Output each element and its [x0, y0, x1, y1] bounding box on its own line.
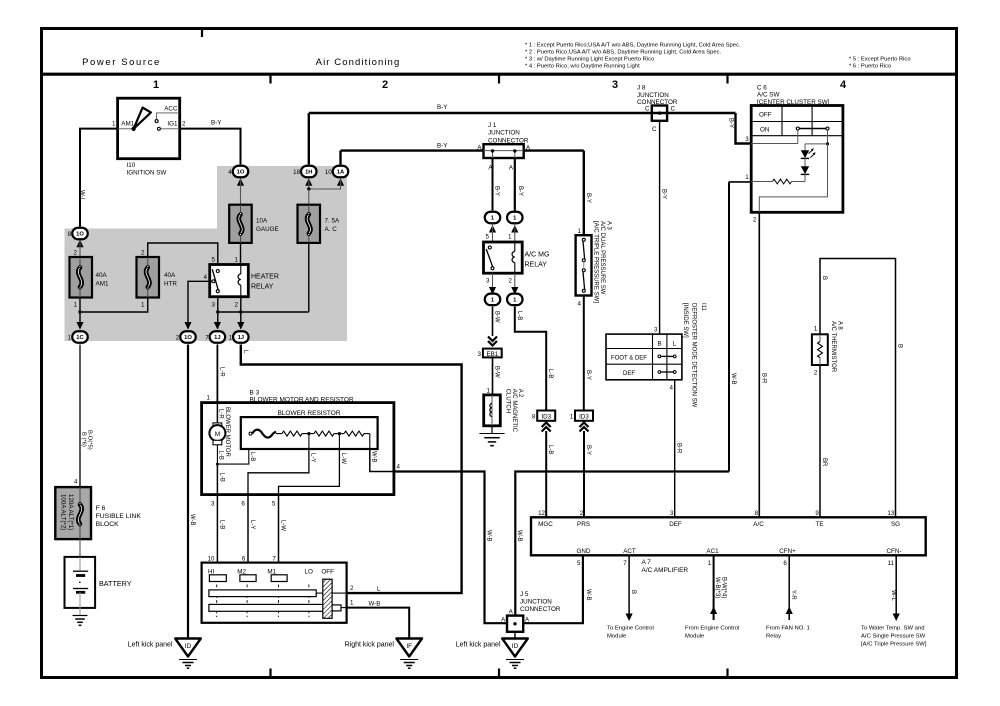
svg-text:L-B: L-B: [547, 369, 553, 378]
svg-text:LO: LO: [304, 569, 313, 576]
svg-text:4: 4: [204, 274, 208, 281]
I10 internal ACC contact: [155, 120, 158, 123]
ACT wire to engine control module: [628, 555, 630, 614]
wire HTR pin2 to relay pin5: [148, 243, 218, 265]
wire C6 pin2 B-R to AC pin8: [758, 212, 760, 517]
junction dot tap LW: [338, 432, 341, 435]
svg-text:To Engine Control: To Engine Control: [607, 626, 654, 632]
svg-text:* 5 : Except Puerto Rico: * 5 : Except Puerto Rico: [849, 57, 911, 63]
battery plates: [79, 557, 81, 571]
svg-text:B-Y: B-Y: [585, 445, 591, 455]
wire motor to LB junction: [216, 445, 218, 464]
wire 2 1O to ID ground W-B: [187, 345, 189, 639]
svg-text:1H: 1H: [305, 170, 312, 176]
svg-text:ON: ON: [760, 126, 770, 133]
svg-text:B: B: [630, 590, 636, 594]
svg-text:BR: BR: [821, 458, 827, 467]
svg-text:L-W: L-W: [340, 453, 346, 464]
wire L-B to ID3 left: [515, 307, 546, 410]
svg-text:Left kick panel: Left kick panel: [128, 642, 173, 649]
arrow into 1 1J: [237, 322, 244, 330]
svg-text:1: 1: [207, 395, 211, 402]
svg-text:2: 2: [182, 121, 186, 128]
svg-text:L: L: [673, 341, 677, 348]
svg-text:AM1: AM1: [121, 120, 134, 127]
svg-text:C 6: C 6: [757, 85, 767, 92]
wire A7 GND to J5: [523, 555, 583, 623]
wire J1 right pin down: [514, 158, 516, 211]
svg-text:BATTERY: BATTERY: [99, 579, 132, 588]
wire 1A branch to fuse AC: [309, 180, 341, 190]
svg-text:FUSIBLE LINK: FUSIBLE LINK: [96, 513, 142, 520]
CFN+ wire from fan relay: [788, 555, 790, 620]
connector 10 1A: [333, 166, 349, 178]
svg-text:B-Y: B-Y: [517, 186, 523, 196]
svg-text:DEF: DEF: [669, 521, 682, 528]
svg-text:Left kick panel: Left kick panel: [456, 642, 501, 649]
svg-text:B-Y: B-Y: [728, 118, 734, 128]
svg-text:B-R: B-R: [760, 373, 766, 384]
svg-text:Module: Module: [685, 634, 705, 640]
svg-text:Power Source: Power Source: [82, 57, 161, 68]
svg-text:7: 7: [272, 556, 276, 563]
battery ground: [79, 608, 81, 616]
svg-text:[INSIDE SW]: [INSIDE SW]: [682, 303, 688, 338]
C8 slider bar L: [209, 590, 316, 597]
svg-text:1: 1: [141, 302, 145, 309]
svg-text:1O: 1O: [184, 335, 192, 341]
svg-text:W-B: W-B: [369, 601, 381, 608]
svg-text:* 6 : Puerto Rico: * 6 : Puerto Rico: [849, 64, 891, 70]
arrow into 7 1J: [214, 322, 221, 330]
C6 internal to pin2: [759, 144, 827, 212]
svg-text:A 8: A 8: [837, 321, 843, 330]
svg-text:W-B: W-B: [485, 530, 491, 542]
C6 LED 2: [804, 158, 806, 166]
svg-text:18: 18: [293, 169, 300, 176]
connector 1 1J: [233, 331, 249, 343]
connector 18 1H: [301, 166, 317, 178]
svg-text:1O: 1O: [237, 170, 245, 176]
svg-text:C: C: [671, 106, 676, 113]
svg-text:3: 3: [211, 501, 215, 508]
svg-text:5: 5: [212, 257, 216, 264]
svg-text:B (*6): B (*6): [80, 432, 86, 447]
svg-text:* 3 : w/ Daytime Running Light: * 3 : w/ Daytime Running Light Except Pu…: [525, 57, 654, 63]
tick header col 1-2: [269, 74, 271, 84]
blower motor M: [216, 403, 218, 423]
svg-text:1A: 1A: [337, 170, 345, 176]
svg-text:2: 2: [235, 302, 239, 309]
svg-text:B-R: B-R: [676, 443, 682, 454]
svg-text:GND: GND: [577, 548, 591, 555]
svg-text:A/C MG: A/C MG: [525, 252, 550, 259]
svg-text:1: 1: [814, 326, 818, 333]
svg-text:Right kick panel: Right kick panel: [345, 642, 395, 649]
junction dot fuse AC feed: [307, 187, 310, 190]
svg-text:4: 4: [578, 301, 582, 308]
junction dot pin3 bus: [216, 310, 219, 313]
I10 internal AM1 contact and rotor arm: [118, 128, 132, 130]
junction dot motor L-B: [216, 463, 219, 466]
svg-text:EB1: EB1: [486, 351, 498, 358]
svg-text:I11: I11: [700, 303, 706, 312]
svg-text:* 2 : Puerto Rico;USA A/T w/o: * 2 : Puerto Rico;USA A/T w/o ABS, Dayti…: [525, 50, 722, 56]
svg-text:ID: ID: [512, 643, 519, 650]
svg-text:A/C THERMISTOR: A/C THERMISTOR: [830, 321, 836, 373]
svg-text:BLOCK: BLOCK: [96, 521, 120, 528]
ground IF right kick panel: [396, 639, 422, 657]
svg-text:B-Y: B-Y: [437, 104, 447, 111]
svg-text:IG1: IG1: [167, 120, 178, 127]
svg-text:J 8: J 8: [637, 85, 646, 92]
svg-text:FOOT & DEF: FOOT & DEF: [611, 355, 647, 361]
A3 switch contacts: [582, 238, 585, 241]
resistor chain: [249, 432, 252, 435]
svg-text:BLOWER RESISTOR: BLOWER RESISTOR: [277, 410, 340, 417]
svg-text:AC1: AC1: [706, 548, 719, 555]
C8 dashed guides: [216, 585, 218, 618]
svg-text:8: 8: [755, 510, 759, 517]
svg-text:CONNECTOR: CONNECTOR: [520, 606, 561, 613]
svg-text:DEF: DEF: [623, 371, 635, 377]
wire MG pin2 down L-B: [514, 273, 516, 294]
svg-text:RELAY: RELAY: [525, 262, 548, 269]
C8 bar WB right end: [332, 605, 341, 611]
ground ID left kick panel: [175, 639, 201, 657]
svg-text:6: 6: [241, 501, 245, 508]
svg-text:CFN-: CFN-: [886, 548, 901, 555]
svg-text:B-Y: B-Y: [493, 186, 499, 196]
svg-text:L-B: L-B: [218, 451, 224, 460]
svg-text:RELAY: RELAY: [251, 284, 274, 291]
svg-text:W-B: W-B: [730, 373, 736, 385]
tick header col 3-4: [726, 74, 728, 84]
svg-text:3: 3: [745, 136, 749, 143]
svg-text:1: 1: [745, 174, 749, 181]
svg-text:10: 10: [325, 169, 332, 176]
svg-text:8: 8: [68, 231, 72, 238]
svg-text:A/C AMPLIFIER: A/C AMPLIFIER: [642, 567, 689, 574]
wire relay pin3 down: [217, 297, 219, 329]
svg-text:* 4 : Puerto Rico, w/o Daytime: * 4 : Puerto Rico, w/o Daytime Running L…: [525, 64, 640, 70]
svg-text:1J: 1J: [238, 335, 244, 341]
svg-text:Air Conditioning: Air Conditioning: [316, 57, 401, 68]
svg-text:L-Y: L-Y: [249, 520, 255, 529]
wire tap LW to pin5: [279, 449, 340, 495]
svg-text:1: 1: [153, 79, 159, 91]
C6 A/C switch box: [751, 106, 843, 213]
MG relay switch contacts: [488, 246, 491, 249]
wire J8 down B-Y to I11: [659, 121, 661, 334]
wire W-B from B3 pin4 to J5: [394, 472, 507, 624]
wire ID3 right to PRS: [583, 431, 585, 517]
svg-text:W-L: W-L: [890, 590, 896, 602]
junction connector J8 box: [652, 106, 667, 121]
C6 ON contact: [796, 127, 799, 130]
svg-text:ID3: ID3: [579, 413, 589, 420]
wire LB tap: [217, 449, 248, 464]
svg-text:Relay: Relay: [766, 634, 781, 640]
svg-text:2: 2: [814, 370, 818, 377]
svg-text:A/C Single Pressure SW: A/C Single Pressure SW: [861, 634, 926, 640]
C6 resistor: [804, 174, 806, 181]
wire oval to EB1: [492, 307, 494, 337]
wire W-B from C6 riser to J5: [515, 472, 729, 616]
ignition switch I10 box: [118, 98, 180, 159]
connector ID3 right: [575, 411, 593, 421]
svg-text:L-R: L-R: [218, 409, 224, 419]
svg-text:2: 2: [508, 277, 512, 284]
svg-text:[A/C Triple Pressure SW]: [A/C Triple Pressure SW]: [861, 642, 927, 648]
wire A3 pin4 to ID3 right: [583, 296, 585, 410]
wire tap WB to pin4: [370, 449, 394, 472]
svg-text:1: 1: [350, 600, 354, 607]
wire I11 pin4 to DEF pin B-R: [674, 380, 676, 518]
wire thermistor pin1 B to SG: [820, 259, 896, 518]
wire J1 right to A3 pin1: [524, 149, 584, 151]
svg-text:1: 1: [229, 334, 233, 341]
svg-text:13: 13: [887, 510, 894, 517]
svg-text:A/C DUAL PRESSURE SW: A/C DUAL PRESSURE SW: [599, 221, 605, 295]
svg-text:5: 5: [577, 560, 581, 567]
svg-text:CFN+: CFN+: [779, 548, 796, 555]
svg-text:L-Y: L-Y: [309, 453, 315, 462]
svg-text:A 3: A 3: [605, 221, 611, 230]
A3 dual pressure switch box: [576, 235, 592, 295]
svg-text:L-B: L-B: [516, 311, 522, 320]
svg-text:1: 1: [708, 560, 712, 567]
svg-text:3: 3: [654, 327, 658, 334]
C8 contact pads: [209, 575, 226, 582]
svg-text:PRS: PRS: [577, 521, 590, 528]
MG relay coil: [512, 252, 515, 263]
svg-text:J 1: J 1: [488, 122, 497, 129]
ground ID center left kick panel: [502, 639, 528, 657]
svg-text:2: 2: [141, 250, 145, 257]
svg-text:B-O(*5): B-O(*5): [87, 430, 93, 450]
A8 thermistor box: [812, 334, 828, 365]
tap wires down: [308, 434, 310, 449]
svg-text:A 7: A 7: [642, 559, 652, 566]
svg-text:M: M: [215, 431, 220, 438]
wire MG pin3 down B-W: [492, 273, 494, 294]
AC1 wire from engine control module: [713, 555, 715, 620]
svg-text:1: 1: [68, 334, 72, 341]
heater relay switch contacts: [216, 270, 219, 273]
AC MG relay box: [484, 242, 523, 273]
gray fuse/relay block region: [65, 166, 348, 341]
svg-text:From Engine Control: From Engine Control: [685, 626, 739, 632]
wire J5 to ID ground: [514, 632, 516, 639]
svg-text:B-Y: B-Y: [585, 370, 591, 380]
svg-text:B 3: B 3: [250, 390, 260, 397]
connector 1 1C: [72, 331, 88, 343]
connector 2 1O: [180, 331, 196, 343]
wire relay pin2 down: [240, 297, 242, 329]
I11 defroster switch box: [606, 334, 682, 380]
svg-text:4: 4: [228, 169, 232, 176]
svg-text:From FAN NO. 1: From FAN NO. 1: [766, 626, 810, 632]
blower resistor inner box: [241, 417, 378, 449]
arrow into 2 1O: [184, 322, 191, 330]
connector oval 1 left: [485, 212, 501, 224]
svg-text:1: 1: [74, 302, 78, 309]
svg-text:1: 1: [508, 234, 512, 241]
wire J1 left pin down: [492, 158, 494, 211]
svg-text:J 5: J 5: [520, 591, 529, 598]
tick top border: [201, 30, 203, 37]
svg-text:I10: I10: [127, 162, 136, 169]
A8 thermistor element: [819, 334, 821, 341]
svg-text:B-Y: B-Y: [585, 193, 591, 203]
svg-text:W-L: W-L: [79, 190, 85, 202]
svg-text:120A ALT(*1): 120A ALT(*1): [67, 494, 74, 530]
junction connector J1 box: [484, 144, 524, 158]
svg-text:W-B(*3): W-B(*3): [714, 577, 720, 598]
svg-text:40A: 40A: [96, 272, 108, 279]
svg-text:A/C MAGNETIC: A/C MAGNETIC: [511, 389, 517, 433]
svg-text:7: 7: [623, 560, 627, 567]
svg-text:GAUGE: GAUGE: [256, 226, 279, 233]
junction dot tap LY: [307, 432, 310, 435]
svg-text:2: 2: [350, 585, 354, 592]
svg-text:A/C SW: A/C SW: [757, 92, 779, 99]
svg-text:3: 3: [478, 351, 482, 358]
wire GAUGE fuse to relay pin1: [240, 243, 242, 265]
svg-text:10A: 10A: [256, 218, 268, 225]
svg-text:AM1: AM1: [96, 281, 109, 288]
svg-text:B: B: [657, 341, 661, 348]
svg-text:W-B: W-B: [370, 451, 376, 463]
svg-text:L-W: L-W: [279, 520, 285, 531]
connector 7 1J: [210, 331, 226, 343]
svg-text:JUNCTION: JUNCTION: [637, 92, 669, 99]
header separator line: [42, 73, 957, 76]
wire C8 pin1 to IF ground: [347, 608, 410, 639]
svg-text:* 1 : Except Puerto Rico;USA A: * 1 : Except Puerto Rico;USA A/T w/o ABS…: [525, 43, 741, 49]
svg-text:2: 2: [382, 79, 388, 91]
svg-text:ID: ID: [185, 643, 192, 650]
svg-text:W-B: W-B: [585, 589, 591, 601]
fuse 40A HTR: [137, 257, 160, 298]
svg-text:7: 7: [205, 334, 209, 341]
svg-text:CLUTCH: CLUTCH: [505, 389, 511, 413]
arrow into 18 1H: [305, 178, 312, 186]
svg-text:W-B: W-B: [189, 514, 195, 526]
svg-text:L-B: L-B: [219, 473, 225, 482]
svg-text:9: 9: [815, 510, 819, 517]
arrow into 4 1O: [237, 178, 244, 186]
junction connector J5 box: [507, 616, 523, 632]
svg-text:1: 1: [235, 257, 239, 264]
svg-text:F 6: F 6: [96, 505, 106, 512]
svg-text:40A: 40A: [164, 272, 176, 279]
wire bus AM1-HTR: [79, 298, 81, 313]
svg-text:IF: IF: [406, 643, 412, 650]
svg-text:1C: 1C: [76, 335, 84, 341]
svg-text:To Water Temp. SW and: To Water Temp. SW and: [861, 626, 925, 632]
svg-text:6: 6: [783, 560, 787, 567]
svg-text:HTR: HTR: [164, 281, 177, 288]
svg-text:3: 3: [486, 277, 490, 284]
tick header col 2-3: [498, 74, 500, 84]
svg-text:TE: TE: [815, 521, 823, 528]
svg-text:B: B: [896, 344, 902, 348]
svg-text:4: 4: [74, 479, 78, 486]
svg-text:Y-R: Y-R: [790, 590, 796, 600]
tick bottom col 2-3: [498, 669, 500, 678]
wire bus relay to fuse AC: [218, 311, 309, 313]
svg-text:W-B: W-B: [516, 530, 522, 542]
wire thermistor pin2 BR to TE: [819, 365, 821, 517]
heater relay box: [210, 265, 249, 297]
chevrons ID3 left: [542, 423, 551, 428]
svg-text:ID3: ID3: [541, 413, 551, 420]
wire B-Y top run from 1H to C6 pin3: [308, 113, 310, 165]
B3 box: [202, 403, 394, 495]
fuse 7.5A AC: [298, 205, 321, 243]
svg-text:JUNCTION: JUNCTION: [488, 130, 520, 137]
connector 4 1O: [233, 166, 249, 178]
J1 pin dots: [492, 151, 494, 158]
connector ID3 left: [537, 411, 555, 421]
svg-text:L-R: L-R: [218, 367, 224, 377]
chevrons ID3 right: [580, 423, 589, 428]
svg-text:1: 1: [487, 388, 491, 395]
C6 table rows: [751, 121, 843, 123]
svg-text:SG: SG: [891, 521, 900, 528]
svg-text:100A ALT(*2): 100A ALT(*2): [59, 494, 66, 530]
svg-text:B-W: B-W: [494, 311, 500, 323]
tick bottom col 3-4: [726, 669, 728, 678]
svg-text:3: 3: [670, 510, 674, 517]
A2 clutch coil: [491, 395, 493, 426]
svg-text:2: 2: [74, 250, 78, 257]
junction dot relay pin2 drop: [239, 310, 242, 313]
arrow into 10 1A: [337, 178, 344, 186]
wire relay pin4 to connector 2 1O: [210, 280, 212, 282]
wire C6 pin1 W-B: [729, 181, 751, 183]
svg-text:MGC: MGC: [538, 521, 553, 528]
wire I10 pin1 W-L to connector 1O: [80, 129, 118, 227]
svg-text:ACT: ACT: [623, 548, 636, 555]
CFN- wire to water temp switch: [895, 555, 897, 614]
arrow into fuse AM1: [76, 240, 83, 248]
tick bottom col 1-2: [269, 669, 271, 678]
connector EB1: [483, 349, 502, 358]
svg-text:DEFROSTER MODE DETECTION SW: DEFROSTER MODE DETECTION SW: [690, 303, 696, 408]
svg-text:3: 3: [212, 302, 216, 309]
I10 internal IG1 contact: [157, 127, 160, 130]
arrow into 1 1C: [76, 322, 83, 330]
C6 internal node: [827, 130, 829, 144]
svg-text:L-B: L-B: [218, 520, 224, 529]
svg-text:10: 10: [208, 556, 215, 563]
svg-text:8: 8: [532, 413, 536, 420]
wire B-Y run2 from 1A to J1: [339, 151, 341, 165]
C8 pin2 wire stub: [332, 592, 347, 594]
svg-text:B: B: [821, 276, 827, 280]
connector oval 1 pin2: [507, 294, 523, 306]
J5 pin dot: [513, 622, 516, 625]
svg-text:5: 5: [272, 501, 276, 508]
svg-text:4: 4: [397, 464, 401, 471]
svg-text:C: C: [645, 106, 650, 113]
svg-text:11: 11: [888, 560, 895, 567]
C8 slider bar WB: [209, 604, 332, 611]
svg-text:C: C: [652, 126, 657, 133]
